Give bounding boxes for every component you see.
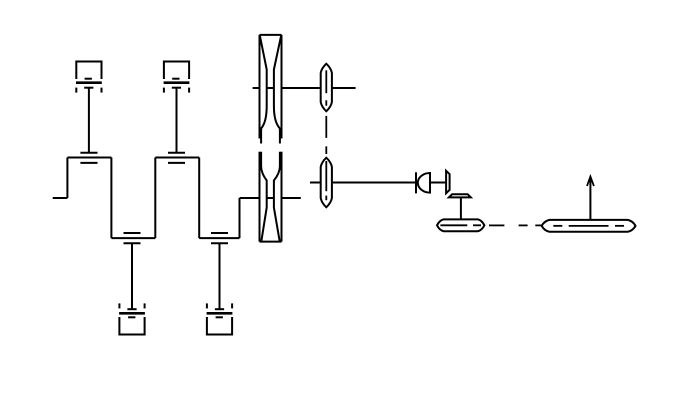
CVT top pulley rim right <box>281 35 283 139</box>
piston P1 wrist pin cap <box>84 87 93 89</box>
crank top web 2 <box>155 157 199 159</box>
crank web vertical 2 <box>110 158 112 239</box>
piston P2 wrist pin cap <box>172 87 181 89</box>
cylinder 2 dashed wall left <box>163 88 165 93</box>
vertical output shaft <box>460 197 462 219</box>
CVT top pulley top edge <box>260 34 282 36</box>
intermediate shaft to clutch <box>332 182 418 184</box>
output arrow shaft <box>589 178 591 220</box>
connecting rod 1 <box>88 88 90 153</box>
intermediate shaft left stub <box>310 182 321 184</box>
cone clutch cup <box>418 173 430 193</box>
crank journal 2 bearing mark <box>168 162 185 164</box>
pulley B3 (small horizontal) <box>437 219 484 231</box>
belt centerline segment 3 <box>325 116 327 138</box>
CVT bottom pulley rim right <box>281 152 283 242</box>
pulley B4 centerline dash 2 <box>569 225 609 227</box>
belt centerline dash 1 <box>489 224 504 226</box>
piston P4 <box>207 312 233 315</box>
belt pulley B1 (top) <box>321 64 332 112</box>
piston P3 crown line <box>128 316 135 318</box>
CVT input shaft waist tick <box>267 87 274 89</box>
crankshaft left end stub <box>53 197 68 199</box>
output arrow head <box>587 177 594 187</box>
piston P1 crown line <box>85 78 92 80</box>
connecting rod 4 (lower) <box>219 243 221 309</box>
crank web vertical 5 <box>239 198 241 238</box>
belt centerline dash 3 <box>535 224 541 226</box>
CVT top pulley cone profile right <box>274 35 281 143</box>
piston P4 crown line <box>216 316 223 318</box>
cylinder 4 dashed wall left <box>206 303 208 308</box>
cylinder 3 dashed wall left <box>118 303 120 308</box>
CVT top pulley rim left <box>259 35 261 139</box>
pulley B4 centerline dash 1 <box>553 225 562 227</box>
crank journal 1b cap <box>124 242 141 244</box>
piston P4 wrist pin cap <box>215 308 224 310</box>
piston P2 crown line <box>172 78 179 80</box>
belt centerline segment 1 <box>325 70 327 93</box>
belt pulley B2 (lower) <box>321 158 332 208</box>
connecting rod 3 (lower) <box>131 243 133 309</box>
crank web vertical 3 <box>154 158 156 239</box>
pulley B4 centerline dash 3 <box>615 225 624 227</box>
belt centerline segment 2 <box>325 100 327 105</box>
CVT bottom pulley cone profile left <box>261 152 267 241</box>
CVT input shaft left stub <box>253 87 260 89</box>
crank web vertical 4 <box>198 158 200 239</box>
crank web vertical 1 <box>66 158 68 199</box>
crank bottom web 2 <box>199 237 239 239</box>
connecting rod 2 <box>176 88 178 153</box>
piston P3 wrist pin cap <box>127 308 136 310</box>
CVT drive shaft waist tick <box>267 197 274 199</box>
bevel gear G2 (vertical shaft) <box>449 194 471 197</box>
crankshaft output shaft <box>240 197 260 199</box>
crank journal 2b bearing mark <box>211 232 228 234</box>
CVT drive shaft right stub <box>282 197 301 199</box>
crank bottom web 1 <box>111 237 155 239</box>
pulley B3 centerline long dash <box>440 224 467 226</box>
CVT bottom pulley cone profile right <box>274 152 280 241</box>
belt centerline segment 4 <box>325 146 327 154</box>
pulley B3 centerline short dash <box>473 224 481 226</box>
CVT top pulley cone profile left <box>260 35 267 143</box>
piston P3 <box>119 312 145 315</box>
piston P2 <box>164 81 190 84</box>
crank journal 2b cap <box>211 242 228 244</box>
cylinder 1 dashed wall left <box>75 88 77 93</box>
cylinder 4 (bottom) <box>207 317 232 335</box>
cylinder 3 (bottom) <box>119 317 144 335</box>
crank journal 1 cap <box>80 152 97 154</box>
CVT bottom pulley rim left <box>259 152 261 242</box>
CVT driven shaft segment <box>282 87 321 89</box>
cylinder 1 dashed wall right <box>101 88 103 93</box>
cylinder 4 dashed wall right <box>231 303 233 308</box>
cylinder 2 (top) <box>164 62 189 80</box>
CVT bottom pulley bottom edge <box>260 241 282 243</box>
cylinder 2 dashed wall right <box>188 88 190 93</box>
cylinder 1 (top left) <box>76 62 101 80</box>
belt centerline dash 2 <box>519 224 528 226</box>
crank top web 1 <box>67 157 111 159</box>
bevel gear G1 (horizontal shaft) <box>446 171 450 193</box>
crank journal 1b bearing mark <box>124 232 141 234</box>
cylinder 3 dashed wall right <box>144 303 146 308</box>
cone clutch face tick <box>415 172 417 193</box>
pulley B4 (large horizontal) <box>542 220 636 232</box>
crank journal 1 bearing mark <box>80 162 97 164</box>
crank journal 2 cap <box>168 152 185 154</box>
belt centerline segment 6 <box>325 196 327 201</box>
clutch output shaft <box>430 182 446 184</box>
CVT driven shaft segment 2 <box>332 87 356 89</box>
belt centerline segment 5 <box>325 161 327 191</box>
piston P1 <box>76 81 102 84</box>
